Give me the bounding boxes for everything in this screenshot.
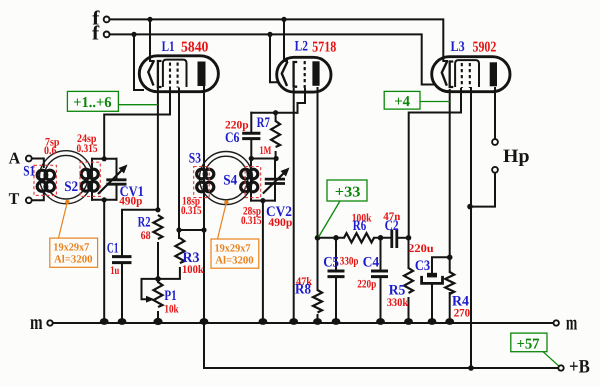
winding S3	[197, 169, 214, 192]
tube L2 heater filament	[282, 62, 288, 87]
svg-text:L2: L2	[295, 39, 308, 55]
junction cathode/C3/R4 node	[447, 254, 453, 260]
tube L1 grid box	[163, 60, 187, 87]
svg-text:m: m	[30, 310, 43, 334]
junction f1 rail at L1	[147, 17, 152, 22]
svg-text:R8: R8	[295, 281, 311, 297]
svg-text:270: 270	[454, 308, 471, 320]
tube L3 anode plate	[490, 62, 497, 86]
junction C4 tap	[378, 235, 384, 241]
wire +B rail	[204, 367, 558, 369]
svg-text:f: f	[92, 22, 100, 44]
svg-text:P1: P1	[164, 288, 176, 304]
tube L1 cathode	[158, 61, 162, 87]
toroid T2 core size callout box 19x29x7 Al=3200	[211, 200, 259, 268]
node +1..+6 cathode voltage label box	[67, 91, 157, 111]
svg-text:C5: C5	[323, 255, 339, 271]
wire C1 bottom to m rail	[121, 264, 123, 323]
svg-text:330p: 330p	[340, 256, 359, 268]
tube L1 anode plate	[198, 62, 206, 87]
node +33 plate voltage label box	[319, 180, 367, 237]
svg-text:490p: 490p	[268, 217, 292, 229]
junction R7 top on grid line	[273, 110, 278, 115]
junction tank2 bottom feed	[260, 198, 265, 203]
wire R5 bottom to m rail	[408, 298, 410, 323]
capacitor C1 1u plates	[112, 257, 132, 263]
wire tank1 rectangle left side (S2 axis)	[91, 159, 93, 200]
wire tank1 top	[92, 158, 117, 160]
junction m rail C1	[118, 318, 127, 325]
svg-text:C6: C6	[225, 130, 240, 146]
wire R8 bottom to m rail	[317, 315, 319, 323]
wire L3 screen lead down to +B rail	[470, 88, 472, 368]
wire f2 drop to L2 filament bottom	[270, 34, 279, 82]
wire m rail	[53, 322, 554, 324]
svg-text:10k: 10k	[164, 304, 179, 316]
wire L3 cathode lead down to C3/R4 node	[449, 90, 451, 257]
svg-text:L3: L3	[451, 39, 465, 55]
wire T terminal to S1 bottom	[32, 192, 44, 200]
tube L1 5840 envelope	[139, 56, 218, 92]
svg-text:S2: S2	[64, 179, 78, 195]
resistor R6 100k horizontal	[344, 233, 374, 242]
wire tank1 bottom feed to m rail	[103, 200, 105, 323]
junction f2 rail at L2	[267, 32, 272, 37]
svg-text:C4: C4	[363, 255, 380, 271]
resistor R4 270	[445, 272, 454, 294]
tube L1 grid 2 dashed	[177, 63, 179, 88]
junction screen/R3	[176, 227, 181, 232]
node f terminal 1	[104, 17, 110, 23]
svg-text:5902: 5902	[473, 40, 497, 56]
wire L1 grid lead jog to tank1 top	[104, 89, 170, 159]
wire Hp return to +B riser	[470, 172, 495, 206]
wire C4 bottom to m rail	[380, 278, 382, 323]
tube L2 5718 envelope	[277, 57, 331, 92]
junction m rail R5	[404, 318, 413, 325]
svg-text:m: m	[566, 311, 578, 335]
svg-text:R7: R7	[257, 115, 270, 131]
wire f1 rail (top filament rail) turning down to L3 filament	[110, 19, 448, 61]
wire R4 bottom to m rail	[449, 293, 451, 323]
potentiometer P1 wiper arrowhead	[146, 296, 155, 303]
svg-text:220p: 220p	[357, 278, 376, 290]
capacitor C2 47n plates	[392, 230, 397, 249]
junction m rail L2 cathode	[289, 318, 298, 325]
junction m rail P1	[153, 318, 162, 325]
wire P1 bottom to m rail	[157, 312, 159, 323]
svg-text:R6: R6	[353, 218, 366, 234]
wire tank1 right side through CV1	[116, 159, 118, 200]
svg-text:+33: +33	[335, 185, 361, 201]
wire C1 branch from R2 node	[122, 210, 158, 255]
junction m rail C4	[376, 318, 385, 325]
wire +33 node line	[318, 237, 345, 239]
wire P1 top stub	[157, 279, 159, 282]
resistor R7 1M	[271, 121, 280, 147]
winding S3 dashed outline	[194, 167, 210, 198]
wire tank2 top	[251, 158, 276, 160]
svg-text:C1: C1	[107, 241, 119, 257]
tube L2 cathode	[294, 62, 298, 87]
junction m rail B+ riser crossing	[200, 318, 209, 325]
junction node R2/C1/cathode	[155, 207, 160, 212]
svg-text:68: 68	[141, 230, 151, 242]
junction C6 to tank2	[249, 156, 254, 161]
tube L3 grid box	[455, 60, 479, 87]
tube L3 grid 1 dashed	[461, 63, 463, 88]
svg-text:Al=3200: Al=3200	[54, 253, 93, 265]
junction m rail tank2	[259, 318, 268, 325]
node f terminal 2	[104, 32, 110, 38]
toroid T1 core size callout box 19x29x7 Al=3200	[50, 200, 98, 268]
svg-text:5840: 5840	[181, 39, 208, 55]
wire R8 top wire	[317, 238, 319, 290]
node A antenna terminal	[26, 156, 32, 162]
winding S4 dashed outline	[245, 167, 261, 198]
svg-text:T: T	[9, 189, 20, 208]
svg-text:19x29x7: 19x29x7	[53, 242, 89, 254]
junction tank1 top feed	[102, 156, 107, 161]
junction m rail C5	[332, 318, 341, 325]
winding S1	[37, 170, 54, 191]
wire f2 drop to L1 filament bottom	[134, 34, 143, 90]
tube L1 heater filament	[148, 61, 154, 86]
junction node P1 top	[155, 276, 161, 282]
svg-text:490p: 490p	[119, 196, 142, 208]
svg-text:Hp: Hp	[503, 146, 530, 167]
node +57 supply voltage label box	[511, 333, 559, 366]
svg-text:+4: +4	[394, 94, 410, 110]
svg-text:5718: 5718	[312, 39, 336, 55]
junction Hp return on +B riser	[467, 204, 473, 210]
svg-text:S1: S1	[23, 164, 35, 180]
junction R7 to tank2	[274, 156, 279, 161]
capacitor CV2 arrow	[263, 168, 290, 194]
junction S3 bottom	[201, 227, 206, 232]
junction m rail C3	[428, 318, 437, 325]
junction +33 node at L2 plate	[315, 235, 321, 241]
capacitor CV1 490p variable plates	[106, 180, 126, 184]
winding S4	[241, 169, 258, 192]
wire C4 top	[380, 238, 382, 270]
svg-text:220u: 220u	[408, 243, 434, 255]
svg-text:Al=3200: Al=3200	[215, 254, 254, 266]
tube L3 heater filament	[442, 61, 448, 86]
svg-text:0.315: 0.315	[241, 215, 262, 227]
wire C6 top lead	[250, 113, 252, 132]
capacitor C3 electrolytic cup	[422, 276, 443, 284]
potentiometer P1 10k	[154, 282, 163, 307]
resistor R8 47k	[313, 290, 322, 313]
svg-text:C3: C3	[415, 258, 430, 274]
tube L2 anode plate	[312, 61, 319, 86]
winding S1 dashed outline	[34, 165, 56, 195]
capacitor CV1 arrow	[98, 165, 128, 195]
svg-text:S3: S3	[189, 150, 201, 166]
svg-text:+B: +B	[569, 357, 590, 378]
wire R2 bottom to P1 node	[157, 243, 159, 279]
wire L2 grid line horizontal	[251, 112, 297, 114]
svg-text:A: A	[9, 148, 21, 167]
capacitor C6 220p plates	[242, 133, 260, 138]
capacitor CV2 490p variable plates	[265, 179, 285, 183]
junction tank1 bottom feed	[102, 197, 107, 202]
wire node line R6 right to C2	[374, 237, 392, 239]
wire tank1 bottom	[92, 199, 117, 201]
svg-text:+1..+6: +1..+6	[73, 95, 112, 111]
node Hp jack lower terminal	[492, 167, 498, 173]
wire L1 plate lead down through S3 winding, B+ riser to +B rail	[203, 86, 205, 368]
wire L2 plate lead down to +33 node	[317, 88, 319, 238]
svg-text:1M: 1M	[260, 145, 272, 157]
tube L1 grid 1 dashed	[169, 63, 171, 88]
node m terminal left	[47, 320, 52, 325]
wire screen node horizontal R3 to S3 bottom	[179, 229, 204, 231]
tube L3 5902 envelope	[432, 57, 510, 92]
svg-text:0.6: 0.6	[44, 145, 57, 157]
junction m rail R4	[445, 318, 454, 325]
wire C3 top branch	[432, 257, 450, 272]
svg-text:0.315: 0.315	[181, 205, 202, 217]
wire L2 grid lead jog	[298, 89, 306, 113]
wire R3 bottom to P1 node	[158, 268, 180, 279]
svg-text:1u: 1u	[110, 265, 120, 277]
junction C5 tap	[333, 235, 339, 241]
wire f1 drop to L1 filament	[150, 19, 154, 61]
svg-text:100k: 100k	[182, 264, 204, 276]
wire R7 stubs	[275, 113, 277, 159]
wire A terminal to S1 top	[32, 159, 44, 168]
wire C5 bottom to m rail	[335, 278, 337, 323]
wire R4 top stub	[449, 257, 451, 272]
wire C6 bottom lead to tank2 top	[250, 140, 252, 159]
node Hp jack upper terminal	[492, 139, 498, 145]
wire f2 rail (second filament rail) turning down around L3	[110, 34, 434, 84]
wire L1 screen lead down to R3 node	[178, 89, 180, 231]
junction C2/R5/L3 grid	[406, 235, 412, 241]
svg-text:19x29x7: 19x29x7	[215, 243, 251, 255]
svg-text:+57: +57	[517, 337, 540, 353]
wire tank2 left side (S4 axis)	[250, 159, 252, 201]
wire tank2 bottom	[251, 200, 275, 202]
wire C5 top	[335, 238, 337, 270]
node T earth terminal	[26, 197, 32, 203]
tube L2 grid dashed	[304, 61, 306, 88]
wire C3 bottom to m rail	[431, 284, 433, 324]
svg-text:0.315: 0.315	[77, 143, 98, 155]
wire R3 top stub	[178, 230, 180, 238]
svg-text:330k: 330k	[387, 297, 409, 309]
wire R5 top wire	[408, 238, 410, 268]
wire f1 drop to L2 filament	[284, 19, 287, 61]
toroid core T2 (interstage transformer)	[200, 152, 253, 205]
tube L3 cathode	[450, 62, 454, 88]
wire P1 wiper loop	[142, 279, 159, 299]
toroid core T1 (antenna transformer)	[40, 151, 93, 204]
capacitor C4 220p plates	[371, 271, 388, 277]
wire L2 cathode lead to m rail	[293, 89, 295, 323]
junction screen riser on +B rail	[468, 365, 474, 371]
junction m rail tank1	[100, 318, 109, 325]
resistor R3 100k	[175, 238, 184, 263]
junction m rail R8	[313, 318, 322, 325]
winding S2 dashed outline	[80, 162, 100, 196]
svg-text:S4: S4	[223, 173, 237, 189]
capacitor C3 220u electrolytic plus plate	[427, 273, 437, 278]
junction f2 rail at L1	[131, 32, 136, 37]
resistor R5 330k	[404, 268, 413, 293]
node m terminal right	[554, 320, 559, 325]
winding S2	[81, 169, 98, 191]
svg-text:L1: L1	[162, 39, 175, 55]
wire L1 cathode lead down to R2 node	[157, 87, 159, 210]
tube L3 grid 2 dashed	[469, 63, 471, 88]
svg-text:C2: C2	[385, 218, 399, 234]
wire tank2 right side through CV2	[274, 159, 276, 201]
svg-text:R2: R2	[138, 215, 151, 231]
capacitor C5 330p plates	[328, 271, 345, 277]
wire L3 plate lead to Hp jack	[494, 88, 496, 139]
resistor R2 68	[153, 215, 162, 239]
node +4 cathode voltage label box	[384, 91, 450, 110]
wire tank2 bottom feed to m rail	[262, 201, 264, 323]
junction f1 rail at L2	[281, 17, 286, 22]
wire L3 grid lead jog down to R5 node	[409, 89, 461, 238]
node +B terminal	[558, 365, 563, 370]
wire C2 right to R5 node	[397, 237, 409, 239]
